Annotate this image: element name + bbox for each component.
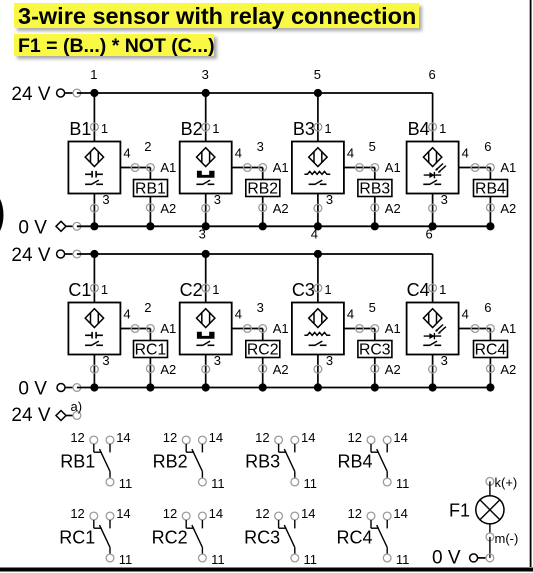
svg-text:4: 4	[462, 146, 469, 161]
svg-text:RB2: RB2	[247, 180, 278, 197]
svg-text:RC3: RC3	[244, 528, 280, 548]
junction: rail to B1	[90, 89, 98, 97]
svg-text:11: 11	[304, 552, 318, 567]
sensor C4 (3-wire proximity switch, type optical)	[407, 303, 459, 355]
wire: B2 pin 3 to 0 V rail	[205, 194, 207, 227]
relay contact RC4 (changeover, terminals 12-14-11)	[336, 506, 409, 567]
wire: rail down to C1 pin 1	[93, 254, 95, 303]
svg-text:A1: A1	[385, 321, 401, 336]
svg-text:3: 3	[441, 192, 448, 207]
svg-text:RC4: RC4	[336, 528, 372, 548]
pin 3 terminal of B1	[91, 192, 110, 212]
terminal A1 of RC4	[487, 321, 517, 336]
terminal A1 of RC3	[371, 321, 401, 336]
svg-text:RB1: RB1	[60, 452, 95, 472]
svg-text:RC1: RC1	[135, 341, 167, 358]
svg-text:12: 12	[163, 506, 177, 521]
svg-text:24 V: 24 V	[11, 405, 50, 426]
pin 1 terminal of C2	[202, 282, 220, 297]
svg-text:RC1: RC1	[59, 528, 95, 548]
svg-text:A2: A2	[385, 201, 401, 216]
wire: C4 pin 4 to RC4 A1	[459, 329, 491, 341]
svg-text:RC2: RC2	[152, 528, 188, 548]
terminal A1 of RC2	[259, 321, 289, 336]
svg-text:4: 4	[123, 146, 130, 161]
svg-text:A1: A1	[273, 321, 289, 336]
svg-text:C4: C4	[407, 280, 430, 300]
svg-text:A1: A1	[273, 160, 289, 175]
pin 3 terminal of C4	[429, 353, 448, 373]
svg-text:5: 5	[369, 300, 376, 315]
wire: B4 pin 4 to RB4 A1	[459, 168, 491, 180]
relay contact RB4 (changeover, terminals 12-14-11)	[337, 430, 409, 491]
0 V supply terminal (rail below C row)	[18, 379, 80, 400]
pin 1 terminal of C3	[314, 282, 332, 297]
wire: B2 pin 4 to RB2 A1	[232, 168, 263, 180]
sensor B4 (3-wire proximity switch, type optical)	[407, 142, 459, 194]
junction: RB4 A2 on 0 V rail	[486, 222, 494, 230]
wire: rail down to B1 pin 1	[93, 93, 95, 142]
wire: RB2 A2 to 0 V rail	[262, 197, 264, 227]
sensor B1 (3-wire proximity switch, type capacitive)	[68, 142, 120, 194]
pin 4 terminal of B3	[347, 146, 364, 172]
terminal k(+) of F1	[486, 475, 517, 490]
pin 3 terminal of C2	[202, 353, 221, 373]
wire: m(-) down to 0 V terminal	[489, 537, 491, 558]
svg-text:3: 3	[257, 300, 264, 315]
junction: rail to C3	[314, 250, 322, 258]
junction: C3 pin 3 on 0 V rail	[314, 383, 322, 391]
svg-text:12: 12	[70, 430, 84, 445]
wire: 0 V rail (below B row)	[77, 225, 491, 227]
0 V supply terminal (bottom right)	[432, 548, 494, 569]
svg-text:1: 1	[439, 121, 446, 136]
wire: RC4 A2 to 0 V rail	[489, 358, 491, 388]
junction: RB1 A2 on 0 V rail	[146, 222, 154, 230]
terminal m(-) of F1	[486, 531, 518, 546]
wire: k(+) to lamp F1	[489, 481, 491, 496]
relay contact RB2 (changeover, terminals 12-14-11)	[153, 430, 225, 491]
pin 4 terminal of C1	[123, 307, 139, 333]
wire: C1 pin 3 to 0 V rail	[93, 355, 95, 388]
svg-text:0 V: 0 V	[432, 548, 461, 569]
svg-text:14: 14	[116, 506, 130, 521]
svg-text:C2: C2	[180, 280, 203, 300]
wire: rail down to C4 pin 1	[432, 254, 434, 303]
svg-text:14: 14	[301, 506, 315, 521]
junction: RC4 A2 on 0 V rail	[486, 383, 494, 391]
svg-text:RB3: RB3	[359, 180, 390, 197]
svg-text:F1: F1	[449, 501, 470, 521]
indicator lamp F1	[449, 496, 504, 524]
svg-text:RC4: RC4	[475, 341, 507, 358]
svg-text:B3: B3	[293, 119, 315, 139]
terminal A1 of RB4	[487, 160, 517, 175]
svg-text:A2: A2	[273, 201, 289, 216]
relay contact RC1 (changeover, terminals 12-14-11)	[59, 506, 132, 567]
svg-text:11: 11	[119, 552, 133, 567]
junction: RC2 A2 on 0 V rail	[259, 383, 267, 391]
svg-text:4: 4	[347, 307, 354, 322]
terminal A2 of RB2	[259, 201, 289, 216]
wire: rail down to B4 pin 1	[432, 93, 434, 142]
wire: rail down to B2 pin 1	[205, 93, 207, 142]
svg-text:3: 3	[214, 353, 221, 368]
svg-text:11: 11	[119, 476, 133, 491]
wire: 24 V rail (C row)	[77, 253, 433, 255]
svg-text:3: 3	[441, 353, 448, 368]
svg-text:2: 2	[144, 139, 151, 154]
pin 3 terminal of C3	[314, 353, 333, 373]
sensor B2 (3-wire proximity switch, type magnetic)	[180, 142, 232, 194]
terminal A2 of RC3	[371, 362, 401, 377]
svg-text:A1: A1	[160, 160, 176, 175]
svg-text:12: 12	[70, 506, 84, 521]
wire: C2 pin 4 to RC2 A1	[232, 329, 263, 341]
wire: B4 pin 3 to 0 V rail	[432, 194, 434, 227]
svg-text:A1: A1	[160, 321, 176, 336]
terminal A2 of RC1	[147, 362, 177, 377]
wire: B1 pin 4 to RB1 A1	[120, 168, 150, 180]
junction: C2 pin 3 on 0 V rail	[202, 383, 210, 391]
terminal A2 of RC2	[259, 362, 289, 377]
24 V supply terminal (rail above C row)	[11, 245, 80, 266]
svg-text:4: 4	[347, 146, 354, 161]
wire: RC2 A2 to 0 V rail	[262, 358, 264, 388]
svg-text:RB4: RB4	[475, 180, 506, 197]
relay contact RB1 (changeover, terminals 12-14-11)	[60, 430, 132, 491]
wire: 0 V rail (below C row)	[77, 387, 491, 389]
0 V supply terminal (rail below B row)	[18, 218, 80, 239]
svg-text:11: 11	[304, 476, 318, 491]
svg-text:A2: A2	[273, 362, 289, 377]
svg-text:1: 1	[439, 282, 446, 297]
svg-text:A2: A2	[160, 201, 176, 216]
wire: rail down to C3 pin 1	[317, 254, 319, 303]
svg-text:RB2: RB2	[153, 452, 188, 472]
pin 3 terminal of B2	[202, 192, 221, 212]
svg-text:24 V: 24 V	[11, 245, 50, 266]
svg-text:1: 1	[324, 121, 331, 136]
svg-text:12: 12	[163, 430, 177, 445]
junction: RB3 A2 on 0 V rail	[371, 222, 379, 230]
relay contact RC2 (changeover, terminals 12-14-11)	[152, 506, 225, 567]
relay contact RC3 (changeover, terminals 12-14-11)	[244, 506, 317, 567]
svg-text:A1: A1	[385, 160, 401, 175]
pin 4 terminal of C4	[462, 307, 479, 333]
svg-text:4: 4	[123, 307, 130, 322]
wire: RC3 A2 to 0 V rail	[374, 358, 376, 388]
sensor C2 (3-wire proximity switch, type magnetic)	[180, 303, 232, 355]
svg-text:3-wire sensor with relay conne: 3-wire sensor with relay connection	[18, 3, 416, 29]
terminal A1 of RB3	[371, 160, 401, 175]
svg-text:5: 5	[369, 139, 376, 154]
svg-text:1: 1	[101, 121, 108, 136]
svg-text:B4: B4	[408, 119, 430, 139]
svg-text:4: 4	[235, 307, 242, 322]
sensor B3 (3-wire proximity switch, type inductive)	[292, 142, 344, 194]
junction: B2 pin 3 on 0 V rail	[202, 222, 210, 230]
wire: rail down to B3 pin 1	[317, 93, 319, 142]
wire: C3 pin 4 to RC3 A1	[344, 329, 375, 341]
pin 1 terminal of B4	[429, 121, 447, 136]
wire: lamp F1 to m(-)	[489, 524, 491, 533]
svg-text:RB1: RB1	[135, 180, 166, 197]
pin 3 terminal of B3	[314, 192, 333, 212]
svg-text:A1: A1	[500, 321, 516, 336]
svg-text:0 V: 0 V	[18, 218, 47, 239]
pin 4 terminal of B1	[123, 146, 139, 172]
terminal A1 of RB2	[259, 160, 289, 175]
svg-text:3: 3	[102, 353, 109, 368]
svg-text:A2: A2	[160, 362, 176, 377]
wire: RB4 A2 to 0 V rail	[489, 197, 491, 227]
junction: RC1 A2 on 0 V rail	[146, 383, 154, 391]
wire: C1 pin 4 to RC1 A1	[120, 329, 150, 341]
terminal A1 of RB1	[147, 160, 177, 175]
svg-text:m(-): m(-)	[495, 531, 519, 546]
junction: B3 pin 3 on 0 V rail	[314, 222, 322, 230]
terminal A2 of RB3	[371, 201, 401, 216]
svg-text:6: 6	[425, 227, 432, 242]
svg-text:2: 2	[144, 300, 151, 315]
svg-text:11: 11	[396, 476, 410, 491]
relay contact RB3 (changeover, terminals 12-14-11)	[245, 430, 317, 491]
sensor C3 (3-wire proximity switch, type inductive)	[292, 303, 344, 355]
svg-text:3: 3	[199, 227, 206, 242]
svg-text:5: 5	[314, 67, 321, 82]
svg-text:A2: A2	[385, 362, 401, 377]
svg-text:6: 6	[484, 139, 491, 154]
svg-text:RB3: RB3	[245, 452, 280, 472]
terminal A2 of RB4	[487, 201, 517, 216]
wire: rail down to C2 pin 1	[205, 254, 207, 303]
formula highlight box F1 = (B...) * NOT (C...)	[14, 34, 217, 59]
wire: B3 pin 3 to 0 V rail	[317, 194, 319, 227]
svg-text:1: 1	[212, 121, 219, 136]
wire: RB1 A2 to 0 V rail	[149, 197, 151, 227]
wire: B3 pin 4 to RB3 A1	[344, 168, 375, 180]
svg-text:1: 1	[101, 282, 108, 297]
svg-text:12: 12	[255, 430, 269, 445]
pin 1 terminal of B2	[202, 121, 220, 136]
svg-text:14: 14	[116, 430, 130, 445]
pin 4 terminal of C2	[235, 307, 252, 333]
terminal A2 of RB1	[147, 201, 177, 216]
junction: RC3 A2 on 0 V rail	[371, 383, 379, 391]
svg-text:3: 3	[326, 192, 333, 207]
svg-text:11: 11	[211, 476, 225, 491]
svg-text:12: 12	[348, 506, 362, 521]
relay coil RC3	[358, 341, 392, 359]
pin 1 terminal of C1	[91, 282, 109, 297]
svg-text:11: 11	[396, 552, 410, 567]
svg-text:14: 14	[393, 430, 407, 445]
svg-text:3: 3	[326, 353, 333, 368]
terminal A2 of RC4	[487, 362, 517, 377]
pin 1 terminal of B1	[91, 121, 109, 136]
svg-text:RC3: RC3	[359, 341, 391, 358]
junction: C1 pin 3 on 0 V rail	[90, 383, 98, 391]
junction: B1 pin 3 on 0 V rail	[90, 222, 98, 230]
svg-text:A2: A2	[500, 362, 516, 377]
svg-text:4: 4	[462, 307, 469, 322]
pin 4 terminal of C3	[347, 307, 364, 333]
junction: rail to B3	[314, 89, 322, 97]
svg-text:14: 14	[301, 430, 315, 445]
wire: RB3 A2 to 0 V rail	[374, 197, 376, 227]
wire: B1 pin 3 to 0 V rail	[93, 194, 95, 227]
pin 3 terminal of B4	[429, 192, 448, 212]
relay coil RC1	[134, 341, 168, 359]
svg-text:k(+): k(+)	[495, 475, 518, 490]
svg-text:RB4: RB4	[337, 452, 372, 472]
wire: RC1 A2 to 0 V rail	[149, 358, 151, 388]
svg-text:12: 12	[255, 506, 269, 521]
svg-text:3: 3	[202, 67, 209, 82]
wire: C4 pin 3 to 0 V rail	[432, 355, 434, 388]
svg-text:1: 1	[324, 282, 331, 297]
sensor C1 (3-wire proximity switch, type capacitive)	[68, 303, 120, 355]
wire: C3 pin 3 to 0 V rail	[317, 355, 319, 388]
24 V supply terminal (top rail)	[11, 84, 80, 105]
junction: rail to C2	[202, 250, 210, 258]
svg-text:6: 6	[484, 300, 491, 315]
svg-text:12: 12	[348, 430, 362, 445]
svg-text:1: 1	[90, 67, 97, 82]
relay coil RC2	[246, 341, 280, 359]
svg-text:11: 11	[211, 552, 225, 567]
junction: C4 pin 3 on 0 V rail	[429, 383, 437, 391]
svg-text:3: 3	[102, 192, 109, 207]
svg-text:B2: B2	[181, 119, 203, 139]
relay coil RB4	[474, 180, 508, 198]
svg-text:24 V: 24 V	[11, 84, 50, 105]
pin 1 terminal of B3	[314, 121, 332, 136]
svg-text:3: 3	[257, 139, 264, 154]
wire: C2 pin 3 to 0 V rail	[205, 355, 207, 388]
svg-text:C1: C1	[68, 280, 91, 300]
svg-text:14: 14	[393, 506, 407, 521]
svg-text:3: 3	[214, 192, 221, 207]
relay coil RC4	[474, 341, 508, 359]
wire: 24 V rail (top)	[77, 92, 433, 94]
svg-text:C3: C3	[292, 280, 315, 300]
pin 4 terminal of B2	[235, 146, 252, 172]
relay coil RB1	[134, 180, 168, 198]
relay coil RB3	[358, 180, 392, 198]
svg-text:4: 4	[311, 227, 318, 242]
pin 4 terminal of B4	[462, 146, 479, 172]
junction: RB2 A2 on 0 V rail	[259, 222, 267, 230]
svg-text:B1: B1	[69, 119, 91, 139]
title highlight box	[14, 3, 422, 31]
terminal A1 of RC1	[147, 321, 177, 336]
24 V supply stub with continuation mark a)	[11, 399, 82, 426]
junction: B4 pin 3 on 0 V rail	[429, 222, 437, 230]
svg-text:F1 = (B...) * NOT (C...): F1 = (B...) * NOT (C...)	[18, 35, 215, 57]
svg-text:14: 14	[209, 430, 223, 445]
svg-text:4: 4	[235, 146, 242, 161]
svg-text:14: 14	[209, 506, 223, 521]
svg-text:0 V: 0 V	[18, 379, 47, 400]
svg-text:A2: A2	[500, 201, 516, 216]
relay coil RB2	[246, 180, 280, 198]
svg-text:1: 1	[212, 282, 219, 297]
svg-text:a): a)	[71, 399, 83, 414]
svg-text:6: 6	[428, 67, 435, 82]
svg-text:RC2: RC2	[247, 341, 279, 358]
junction: rail to B2	[202, 89, 210, 97]
pin 1 terminal of C4	[429, 282, 447, 297]
pin 3 terminal of C1	[91, 353, 110, 373]
junction: rail to C1	[90, 250, 98, 258]
svg-text:A1: A1	[500, 160, 516, 175]
